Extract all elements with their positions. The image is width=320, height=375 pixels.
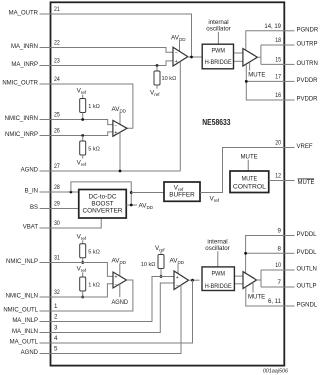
pin 14,19 PGNDR [264, 23, 318, 33]
wire B_IN pin 28 into boost converter [50, 191, 79, 193]
pin 2 MA_INLP [12, 314, 58, 324]
pin 20 VREF [275, 140, 313, 150]
wire NMIC_INLP pin 31 to op-amp non-inverting input [50, 263, 113, 277]
wire power amp R bottom to PVDDR pins 17,16 [246, 64, 284, 100]
resistor 5 kOhm (NMIC left P input) [80, 244, 86, 258]
pin 24 NMIC_OUTR [2, 76, 60, 86]
wire 10k resistor left top lead [160, 251, 162, 254]
svg-text:27: 27 [54, 163, 60, 170]
wire MA_INRP pin 23 to op-amp non-inverting input [50, 61, 173, 66]
wire MUTE stub power amp R [249, 62, 251, 70]
svg-text:−: − [175, 51, 178, 57]
svg-text:MA_INLP: MA_INLP [12, 318, 38, 324]
amplifier power amp R [243, 49, 258, 67]
svg-text:22: 22 [54, 40, 60, 47]
svg-text:+: + [176, 275, 179, 281]
wire 5k resistor bottom lead to Vref [82, 155, 84, 159]
wire 5k resistor top lead [82, 136, 84, 142]
resistor 1 kOhm (NMIC left N input) [80, 277, 86, 291]
pin 1 NMIC_OUTL [3, 303, 58, 313]
svg-text:14, 19: 14, 19 [264, 23, 281, 30]
svg-text:32: 32 [54, 289, 60, 296]
pin 23 MA_INRP [11, 58, 60, 68]
svg-text:OUTRP: OUTRP [297, 42, 318, 48]
svg-text:AGND: AGND [21, 350, 39, 356]
resistor 5 kOhm (NMIC right P input) [80, 141, 86, 155]
wire VBAT pin 30 into boost converter bottom [50, 218, 101, 228]
svg-text:H-BRIDGE: H-BRIDGE [205, 59, 232, 66]
svg-text:18: 18 [275, 37, 281, 44]
svg-text:PGNDL: PGNDL [297, 303, 318, 309]
wire MA left op-amp ground down to AGND pin 5 [50, 285, 181, 354]
svg-text:5 kΩ: 5 kΩ [88, 249, 100, 255]
svg-text:NMIC_INRN: NMIC_INRN [5, 116, 38, 122]
svg-text:1: 1 [54, 303, 58, 310]
node junction MA right output [190, 56, 193, 59]
IC boundary box NE58633 [51, 2, 285, 365]
svg-text:DC-to-DC: DC-to-DC [88, 193, 116, 200]
svg-text:MUTE: MUTE [241, 153, 258, 160]
wire PWM R output lower to power amp R [234, 60, 243, 62]
svg-text:23: 23 [54, 58, 60, 65]
svg-text:4: 4 [54, 335, 58, 342]
pin 29 BS [30, 201, 60, 211]
pin 5 AGND [21, 346, 58, 356]
op-amp MA left [174, 271, 189, 290]
block DC-to-DC BOOST CONVERTER [79, 190, 127, 219]
svg-text:MA_OUTR: MA_OUTR [9, 11, 39, 17]
svg-text:MA_INRN: MA_INRN [11, 44, 38, 50]
pin 9 PVDDL [278, 228, 318, 238]
wire AVDD supply stub into MA right op-amp [179, 41, 181, 51]
wire AVDD supply stub into NMIC left op-amp [119, 264, 121, 276]
svg-text:29: 29 [54, 201, 60, 208]
op-amp NMIC left [113, 272, 127, 288]
svg-text:8: 8 [278, 246, 282, 253]
pin 28 B_IN [25, 184, 61, 194]
pin 25 NMIC_INRN [5, 112, 61, 122]
node junction 10k resistor / MA left P input [160, 275, 163, 278]
wire MA right op-amp ground down to AGND rail [179, 62, 181, 171]
svg-text:12: 12 [275, 173, 281, 180]
svg-text:31: 31 [54, 255, 60, 262]
wire PVDDL pins 9,8 to power amp L top [246, 236, 284, 274]
amplifier power amp L [243, 272, 257, 289]
resistor 10 kOhm (MA left input bias) [158, 255, 164, 269]
op-amp NMIC right [113, 120, 127, 136]
wire NMIC left op-amp output to pin 1 NMIC_OUTL [50, 280, 133, 311]
svg-text:2: 2 [54, 314, 58, 321]
wire 1k resistor top lead [82, 95, 84, 99]
svg-text:26: 26 [54, 128, 60, 135]
svg-text:15: 15 [275, 57, 281, 64]
node junction Vref buffer input tap [130, 191, 133, 194]
svg-text:5: 5 [54, 346, 58, 353]
svg-text:PWM: PWM [211, 48, 225, 55]
block Vref BUFFER [164, 182, 200, 201]
wire 10k resistor left bottom lead [160, 269, 162, 277]
svg-text:oscillator: oscillator [206, 26, 230, 33]
wire 10k resistor bottom lead to Vref [156, 85, 158, 89]
wire power amp L output to pins 10 and 7 [257, 270, 284, 287]
pin 27 AGND [21, 163, 61, 173]
svg-text:NMIC_INRP: NMIC_INRP [5, 132, 38, 138]
svg-text:25: 25 [54, 112, 60, 119]
node junction boost output / bypass [130, 204, 133, 207]
wire PGNDR pin 14,19 to power amp R top [246, 31, 284, 50]
svg-text:28: 28 [54, 184, 60, 191]
wire MUTE stub power amp L [252, 282, 254, 292]
svg-text:PVDDL: PVDDL [297, 250, 318, 256]
svg-text:6, 11: 6, 11 [268, 298, 282, 305]
pin 16 PVDDR [275, 92, 318, 102]
wire AVDD supply stub into NMIC right op-amp [119, 112, 121, 124]
svg-text:21: 21 [54, 6, 60, 13]
wire 10k resistor top lead [156, 66, 158, 72]
wire AVDD supply stub into MA left op-amp [177, 264, 179, 274]
svg-text:H-BRIDGE: H-BRIDGE [205, 283, 232, 290]
svg-text:+: + [115, 275, 118, 281]
pin 8 PVDDL [278, 246, 318, 256]
svg-text:17: 17 [275, 74, 281, 81]
svg-text:MUTE: MUTE [298, 180, 315, 186]
wire 5k resistor left top lead [82, 240, 84, 244]
svg-text:3: 3 [54, 325, 58, 332]
svg-text:oscillator: oscillator [205, 245, 229, 252]
svg-text:PVDDR: PVDDR [297, 78, 319, 84]
svg-text:AGND: AGND [21, 168, 39, 174]
pin 32 NMIC_INLN [6, 289, 61, 299]
wire power amp L bottom to PGNDL pin 6,11 [246, 287, 284, 306]
svg-text:PGNDR: PGNDR [297, 27, 319, 33]
svg-text:16: 16 [275, 92, 281, 99]
pin 4 MA_OUTL [10, 335, 58, 345]
wire Vref buffer output to VREF pin 20 [200, 148, 284, 193]
wire 1k resistor left top lead [82, 272, 84, 277]
svg-text:VREF: VREF [297, 144, 313, 150]
block PWM H-BRIDGE right [202, 44, 233, 69]
svg-text:OUTLN: OUTLN [297, 267, 317, 273]
pin 15 OUTRN [275, 57, 318, 67]
block MUTE CONTROL [230, 171, 269, 193]
block PWM H-BRIDGE left [202, 267, 234, 291]
wire PWM R output upper to power amp R [234, 52, 243, 54]
wire oscillator stub into PWM bridge R [217, 32, 219, 45]
wire MUTE stub into mute control [247, 160, 249, 171]
node junction pin23 / 10k resistor [156, 64, 159, 67]
pin 26 NMIC_INRP [5, 128, 60, 138]
svg-text:NMIC_INLP: NMIC_INLP [6, 259, 38, 265]
svg-text:1 kΩ: 1 kΩ [88, 283, 100, 289]
pin 12 MUTE-bar [275, 173, 314, 187]
svg-text:OUTRN: OUTRN [297, 61, 318, 67]
wire power amp R output to pins 18 and 15 [257, 45, 284, 64]
pin 3 MA_INLN [12, 325, 58, 335]
node junction power amp L / pin 8 [244, 252, 247, 255]
wire AGND rail pin 27 [50, 170, 180, 172]
svg-text:PVDDR: PVDDR [297, 97, 319, 103]
wire oscillator stub into PWM bridge L [217, 251, 219, 266]
svg-text:10: 10 [275, 262, 281, 269]
wire AGND stub below NMIC left op-amp [119, 284, 121, 297]
wire NMIC_OUTR pin 24 to NMIC right op-amp output [50, 84, 133, 128]
wire MA_INRN pin 22 to op-amp inverting input [50, 48, 173, 53]
svg-text:CONVERTER: CONVERTER [82, 208, 122, 215]
wire 1k resistor left bottom lead [82, 291, 84, 297]
svg-text:NMIC_OUTR: NMIC_OUTR [2, 81, 38, 87]
svg-text:OUTLP: OUTLP [297, 284, 317, 290]
node junction MA left output [191, 279, 194, 282]
svg-text:NE58633: NE58633 [202, 117, 230, 127]
svg-text:+: + [175, 59, 178, 65]
pin 7 OUTLP [278, 279, 317, 289]
svg-text:20: 20 [275, 140, 281, 147]
node junction pin25 / 1k resistor [81, 118, 84, 121]
svg-text:NMIC_OUTL: NMIC_OUTL [3, 308, 38, 314]
svg-text:1 kΩ: 1 kΩ [88, 104, 100, 110]
svg-text:24: 24 [54, 76, 60, 83]
wire mute control to pin 12 [269, 180, 284, 182]
pin 6,11 PGNDL [268, 298, 318, 308]
svg-text:PWM: PWM [211, 270, 225, 277]
wire MA_OUTR feedback from pin 21 to MA right op-amp output [50, 14, 192, 57]
wire NMIC_INRP pin 26 to op-amp non-inverting input [50, 132, 113, 136]
svg-text:5 kΩ: 5 kΩ [88, 147, 100, 153]
svg-text:+: + [114, 130, 117, 136]
wire PWM L output upper to power amp L [235, 275, 243, 277]
node junction AGND / NMIC right ground [119, 170, 122, 173]
svg-text:−: − [115, 282, 118, 288]
node junction pin32 / 1k resistor [81, 296, 84, 299]
node junction pin26 / 5k resistor [81, 134, 84, 137]
svg-text:MUTE: MUTE [248, 294, 265, 301]
node junction power amp R / pin 17 [245, 80, 248, 83]
svg-text:10 kΩ: 10 kΩ [141, 262, 156, 268]
wire 1k resistor bottom lead [82, 113, 84, 120]
svg-text:B_IN: B_IN [25, 189, 38, 195]
svg-text:BS: BS [30, 205, 38, 211]
svg-text:NMIC_INLN: NMIC_INLN [6, 294, 38, 300]
svg-text:VBAT: VBAT [23, 225, 39, 231]
svg-text:−: − [176, 283, 179, 289]
wire NMIC_INRN pin 25 to op-amp inverting input [50, 120, 113, 125]
wire MA_INLN pin 3 to op-amp inverting input [50, 283, 174, 333]
op-amp MA right (main amplifier R) [173, 47, 188, 66]
svg-text:10 kΩ: 10 kΩ [162, 76, 177, 82]
wire B_IN bypass over boost converter to AVDD node [71, 182, 131, 205]
resistor 10 kOhm (MA right input bias) [154, 71, 160, 85]
pin 21 MA_OUTR [9, 6, 61, 16]
node junction B_IN / bypass [70, 191, 73, 194]
pin 31 NMIC_INLP [6, 255, 60, 265]
wire BS pin 29 into boost converter [50, 208, 79, 210]
svg-text:AGND: AGND [112, 299, 129, 306]
svg-text:9: 9 [278, 228, 282, 235]
wire Vref buffer input [131, 192, 164, 194]
wire MA right op-amp output to PWM bridge R [188, 56, 202, 58]
pin 30 VBAT [23, 220, 60, 230]
svg-text:MA_INLN: MA_INLN [12, 329, 38, 335]
resistor 1 kOhm (NMIC right N input) [80, 99, 86, 113]
svg-text:CONTROL: CONTROL [233, 183, 266, 190]
svg-text:MA_INRP: MA_INRP [11, 62, 38, 68]
wire NMIC_INLN pin 32 to op-amp inverting input [50, 284, 113, 297]
svg-text:−: − [114, 123, 117, 129]
svg-text:BOOST: BOOST [91, 201, 113, 208]
svg-text:MUTE: MUTE [248, 72, 265, 79]
pin 17 PVDDR [275, 74, 318, 84]
wire 5k resistor left bottom lead [82, 258, 84, 263]
svg-text:30: 30 [54, 220, 60, 227]
wire boost converter output to AVDD label [126, 204, 137, 206]
pin 18 OUTRP [275, 37, 317, 47]
pin 10 OUTLN [275, 262, 317, 272]
wire MA_OUTL feedback pin 4 to MA left output [50, 280, 193, 343]
wire PWM L output lower to power amp L [235, 283, 243, 285]
svg-text:PVDDL: PVDDL [297, 232, 318, 238]
wire NMIC right op-amp ground down to AGND rail [119, 132, 121, 171]
svg-text:BUFFER: BUFFER [169, 192, 195, 199]
wire MA_INLP pin 2 to op-amp non-inverting input [50, 277, 174, 322]
svg-text:001aaj506: 001aaj506 [263, 369, 288, 375]
pin 22 MA_INRN [11, 40, 60, 50]
wire MA left op-amp output to PWM bridge L [189, 279, 200, 281]
node junction pin31 / 5k resistor [81, 261, 84, 264]
svg-text:7: 7 [278, 279, 282, 286]
svg-text:MUTE: MUTE [242, 176, 258, 183]
svg-text:MA_OUTL: MA_OUTL [10, 340, 39, 346]
